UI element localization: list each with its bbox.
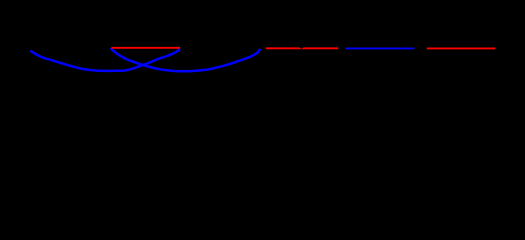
red flat segment right: [427, 47, 496, 49]
blue flat segment: [345, 47, 414, 49]
notch (dark bite at segment center): [299, 47, 303, 49]
red segment with small center notch: [266, 47, 338, 49]
blue curve 1 (left U-arc): [30, 49, 180, 71]
red chord over left curves: [112, 47, 181, 49]
blue curve 2 (right U-arc): [111, 48, 261, 71]
